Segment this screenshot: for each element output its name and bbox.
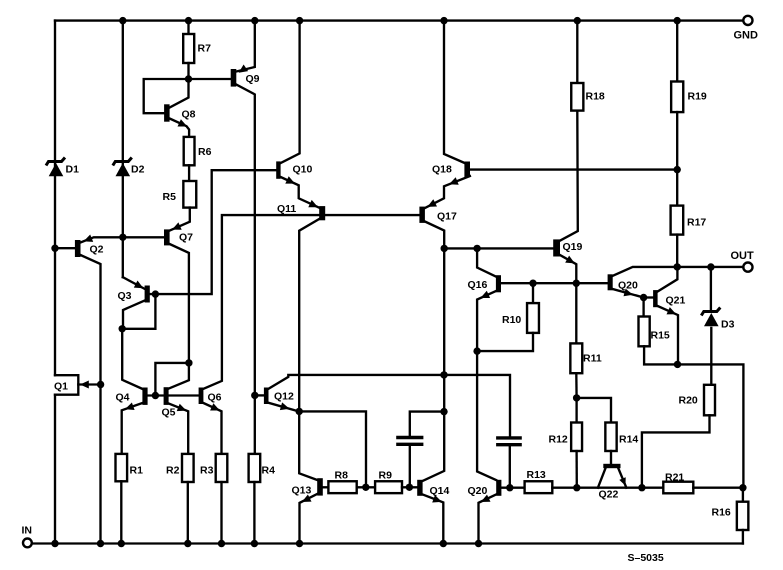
svg-text:Q1: Q1 (54, 381, 68, 393)
wire Q18 base (470, 166, 681, 173)
svg-text:R15: R15 (651, 330, 670, 342)
wire Q8 base loop (144, 79, 189, 113)
transistor Q22 (598, 464, 627, 501)
transistor Q10 (276, 161, 312, 178)
diode D1 (46, 158, 79, 177)
svg-text:R3: R3 (200, 465, 214, 477)
transistor Q20 upper (608, 274, 638, 291)
wire bottom IN rail (32, 542, 743, 544)
svg-text:Q2: Q2 (90, 244, 104, 256)
svg-text:Q20: Q20 (618, 280, 638, 292)
resistor R21 (663, 472, 693, 494)
svg-text:Q8: Q8 (182, 109, 196, 121)
transistor Q16 (468, 275, 502, 292)
wire R4 to rail (251, 482, 258, 547)
wire top GND rail (55, 19, 743, 21)
transistor Q21 (644, 290, 686, 307)
resistor R1 (116, 454, 144, 481)
resistor R5 (163, 181, 197, 208)
svg-text:IN: IN (22, 525, 33, 537)
transistor Q1 (54, 375, 78, 395)
wire Q22 line (577, 487, 664, 489)
wire Q3 base-collector tie (122, 294, 155, 329)
wire Q17 collector column (423, 222, 448, 482)
resistor R4 (249, 454, 275, 482)
svg-text:R4: R4 (262, 465, 276, 477)
wire Q5 emitter (169, 404, 189, 454)
wire R7 bottom node (185, 63, 192, 83)
wire Q4 emitter (122, 403, 143, 454)
terminal IN (22, 525, 33, 548)
terminal GND (734, 16, 759, 42)
wire Q16 collector (477, 248, 496, 276)
wire R12 to bottom line (573, 451, 580, 491)
transistor Q9 (231, 69, 260, 87)
transistor Q19 (553, 239, 582, 256)
wire Q7 collector to Q5 collector (169, 244, 193, 389)
svg-text:Q9: Q9 (246, 73, 260, 85)
wire Q13 base (323, 486, 329, 488)
svg-text:R21: R21 (665, 472, 684, 484)
wire Q8 collector (170, 119, 190, 137)
wire mirror base curl (155, 363, 189, 396)
wire left column (51, 21, 58, 548)
wire node to R8-R9 junction (299, 411, 366, 487)
transistor Q11 (277, 203, 325, 220)
wire Q11 collector (299, 219, 319, 411)
node Q2 base (51, 245, 58, 252)
wire Q12 collector line (269, 371, 511, 436)
resistor R14 (577, 398, 639, 451)
wire R5 to Q7 (170, 208, 190, 231)
wire Q21 emitter (658, 306, 678, 364)
svg-text:R1: R1 (130, 465, 144, 477)
wire R18 bottom to Q19 collector (560, 111, 578, 241)
transistor Q18 (432, 162, 470, 178)
svg-text:D2: D2 (131, 164, 145, 176)
resistor R16 (712, 488, 749, 530)
wire R14 to Q22 (610, 451, 612, 464)
wire R9 to Q14 (402, 484, 417, 491)
resistor R8 (328, 470, 356, 494)
wire Q9 emitter (236, 17, 258, 73)
transistor Q3 (118, 277, 150, 302)
svg-text:Q5: Q5 (162, 407, 176, 419)
wire R13 to R12 node (552, 487, 577, 489)
wire R8-R9 (357, 484, 375, 491)
transistor Q2 (55, 240, 81, 257)
resistor R10 (502, 283, 539, 333)
svg-text:Q7: Q7 (179, 232, 193, 244)
wire R19 to R17 (676, 112, 678, 206)
wire Q12 emitter (269, 402, 303, 415)
svg-text:R2: R2 (166, 465, 180, 477)
resistor R11 (570, 283, 601, 373)
wire Q4-Q5-Q6 base line (148, 392, 199, 399)
wire R16 to rail (742, 530, 744, 544)
wire R10 bottom loop (477, 333, 533, 351)
svg-text:Q11: Q11 (277, 203, 296, 215)
wire R1 to rail (118, 481, 125, 547)
resistor R12 (549, 398, 583, 451)
wire Q16 emitter column (473, 291, 496, 480)
svg-text:R16: R16 (712, 507, 731, 519)
svg-text:Q21: Q21 (666, 295, 686, 307)
svg-text:R13: R13 (527, 469, 546, 481)
diode D2 (113, 17, 145, 277)
wire R6-R5 (188, 165, 190, 181)
svg-text:Q22: Q22 (599, 489, 619, 501)
wire Q2 collector (81, 255, 105, 547)
svg-text:Q19: Q19 (563, 241, 583, 253)
svg-text:D1: D1 (66, 164, 80, 176)
svg-text:R7: R7 (198, 43, 212, 55)
transistor Q8 (164, 104, 196, 121)
wire R20 to Q22 node (638, 415, 709, 491)
wire Q13 emitter (296, 494, 317, 547)
transistor Q20 lower (468, 480, 502, 497)
transistor Q17 (419, 207, 457, 223)
resistor R15 (639, 298, 670, 347)
svg-text:R12: R12 (549, 434, 568, 446)
wire Q3 base to Q10 base (150, 170, 276, 298)
transistor Q7 (164, 229, 193, 245)
capacitor C1 (398, 438, 422, 445)
resistor R3 (200, 454, 227, 482)
terminal OUT (731, 250, 755, 272)
wire node to Q4 collector (122, 329, 142, 389)
resistor R18 (571, 17, 605, 111)
transistor Q6 (199, 388, 222, 405)
resistor R20 (679, 385, 716, 416)
svg-text:Q18: Q18 (432, 164, 452, 176)
wire Q1 gate (78, 381, 104, 389)
wire Q20 emitter (613, 289, 648, 302)
wire Q20 base stub (501, 484, 524, 491)
svg-text:D3: D3 (721, 319, 735, 331)
wire Q19 base line (444, 245, 553, 252)
svg-text:R19: R19 (688, 91, 707, 103)
svg-text:Q16: Q16 (468, 279, 488, 291)
svg-text:Q12: Q12 (274, 391, 294, 403)
svg-text:Q6: Q6 (208, 392, 222, 404)
wire Q18 collector column (440, 17, 464, 163)
capacitor C2 (498, 438, 520, 445)
resistor R19 (671, 17, 707, 112)
wire R2 to rail (184, 482, 191, 547)
svg-text:R10: R10 (502, 314, 521, 326)
svg-text:R5: R5 (163, 191, 177, 203)
wire cap2 bottom lead (509, 446, 511, 487)
transistor Q14 (417, 480, 449, 497)
wire Q2 emitter to Q7 base (81, 234, 165, 243)
svg-text:Q10: Q10 (293, 164, 313, 176)
resistor R7 (183, 17, 211, 63)
wire Q14 emitter (423, 495, 447, 548)
svg-text:OUT: OUT (731, 250, 755, 262)
wire R11 bottom node (573, 373, 580, 401)
wire Q3 collector (119, 301, 145, 333)
svg-text:R17: R17 (687, 217, 706, 229)
resistor R13 (525, 469, 553, 493)
wire Q10 collector (281, 17, 304, 163)
svg-text:R8: R8 (335, 470, 349, 482)
wire Q10 emitter to Q11 (281, 176, 320, 207)
wire Q9 base (189, 78, 231, 80)
wire R17 to OUT node (676, 235, 678, 267)
resistor R2 (166, 454, 194, 482)
wire Q6 emitter (203, 403, 221, 454)
svg-text:Q4: Q4 (116, 392, 130, 404)
diode D3 (701, 267, 734, 385)
svg-text:R6: R6 (198, 146, 212, 158)
transistor Q12 (255, 388, 294, 405)
wire Q18 emitter to Q17 (425, 176, 470, 208)
svg-text:Q3: Q3 (118, 290, 132, 302)
transistor Q13 (292, 478, 323, 496)
svg-text:Q17: Q17 (437, 211, 457, 223)
wire Q16 base line (501, 280, 608, 287)
wire Q19 emitter (560, 255, 576, 283)
svg-text:R9: R9 (379, 470, 393, 482)
resistor R9 (375, 470, 402, 494)
svg-text:R20: R20 (679, 395, 698, 407)
svg-text:R14: R14 (619, 434, 638, 446)
wire Q13 collector (299, 411, 317, 480)
wire Q20 emitter (475, 494, 496, 547)
resistor R17 (671, 206, 707, 235)
wire cap1 top lead (410, 408, 448, 436)
wire Q8 emitter (170, 79, 189, 108)
wire Q21 collector (658, 267, 678, 292)
wire R3 to rail (218, 482, 225, 547)
wire Q20 collector OUT line (613, 263, 744, 276)
wire cap1 bottom lead (409, 446, 411, 487)
svg-text:GND: GND (734, 30, 759, 42)
transistor Q4 (116, 388, 148, 405)
svg-text:Q13: Q13 (292, 485, 312, 497)
resistor R6 (184, 137, 212, 165)
transistor Q5 (162, 387, 176, 418)
svg-text:R11: R11 (583, 353, 602, 365)
svg-text:R18: R18 (586, 91, 605, 103)
wire Q9 collector long column (236, 85, 258, 454)
wire R15 line to right column (644, 346, 743, 487)
svg-text:Q20: Q20 (468, 485, 488, 497)
svg-text:Q14: Q14 (430, 485, 450, 497)
wire Q6 collector to Q11-Q17 base line (203, 215, 419, 389)
svg-text:S–5035: S–5035 (628, 552, 664, 564)
wire R21 to R16 node (693, 484, 746, 491)
